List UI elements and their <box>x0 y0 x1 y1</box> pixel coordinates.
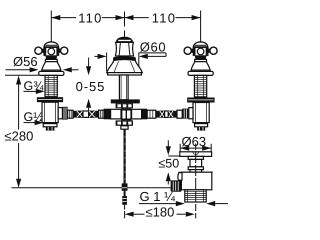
svg-text:G½: G½ <box>24 110 45 124</box>
svg-text:Ø56: Ø56 <box>13 54 38 69</box>
svg-text:≤280: ≤280 <box>5 129 34 144</box>
svg-text:110: 110 <box>152 10 176 25</box>
svg-text:0-55: 0-55 <box>76 79 106 94</box>
svg-text:G 1 ¼: G 1 ¼ <box>140 189 176 204</box>
svg-text:≤180: ≤180 <box>146 205 175 220</box>
svg-text:≤50: ≤50 <box>158 157 179 171</box>
svg-text:110: 110 <box>78 10 102 25</box>
